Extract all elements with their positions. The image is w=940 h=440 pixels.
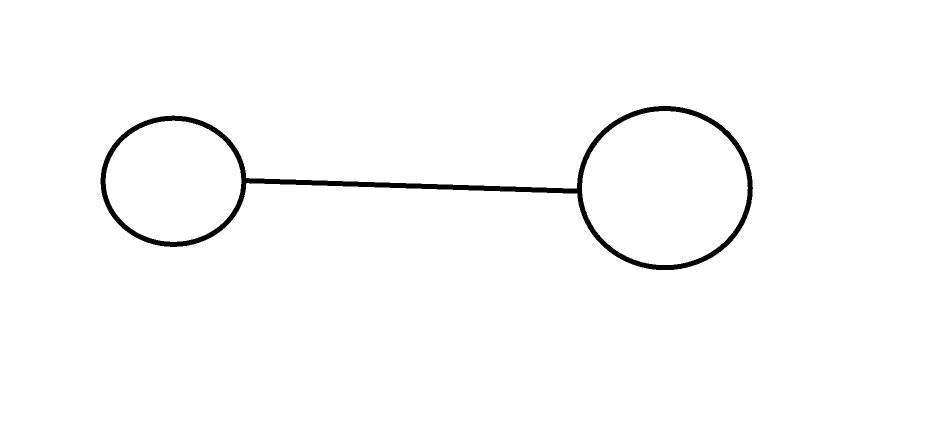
node A: [103, 118, 244, 244]
node B: [580, 109, 751, 268]
wire: [244, 181, 580, 192]
